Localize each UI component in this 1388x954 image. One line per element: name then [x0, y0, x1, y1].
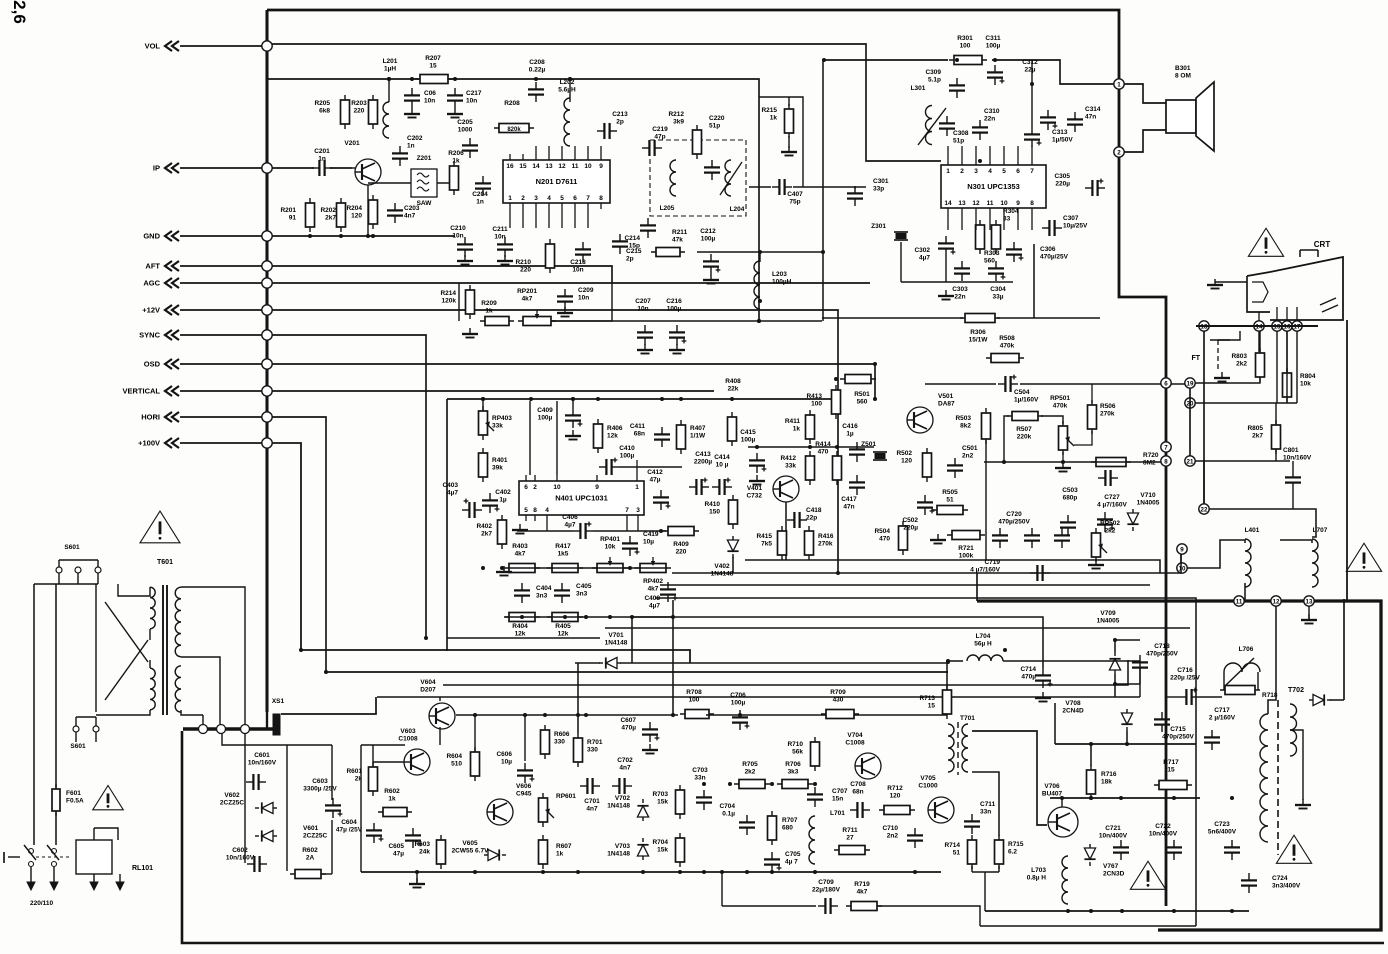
node 8	[1161, 456, 1171, 466]
svg-text:3n3: 3n3	[576, 591, 588, 598]
svg-text:C214: C214	[624, 235, 640, 242]
capacitor C711	[964, 801, 996, 834]
resistor R412	[780, 451, 814, 485]
svg-text:51: 51	[953, 850, 961, 857]
svg-text:C412: C412	[647, 469, 663, 476]
capacitor C308	[939, 116, 969, 145]
switch S601 bottom	[70, 717, 99, 750]
capacitor C724	[1241, 873, 1301, 893]
svg-text:22n: 22n	[984, 116, 995, 123]
capacitor C718	[1132, 643, 1179, 675]
svg-text:4k7: 4k7	[522, 296, 533, 303]
svg-text:8M2: 8M2	[1143, 460, 1156, 467]
svg-text:12: 12	[972, 200, 980, 207]
svg-text:V710: V710	[1140, 492, 1156, 499]
resistor R607	[539, 835, 572, 869]
wire AGC	[180, 282, 262, 284]
svg-text:R719: R719	[854, 881, 870, 888]
resistor R205	[314, 95, 349, 129]
svg-text:N301 UPC1353: N301 UPC1353	[967, 182, 1020, 191]
svg-text:4µ7: 4µ7	[565, 522, 576, 529]
svg-text:C721: C721	[1105, 825, 1121, 832]
wire c301 stub	[854, 187, 856, 189]
input AFT label	[145, 262, 160, 271]
wire bus y585	[660, 584, 1150, 586]
svg-text:1N4148: 1N4148	[607, 851, 630, 858]
svg-text:R506: R506	[1100, 403, 1116, 410]
wire xs1 out right	[281, 697, 376, 714]
svg-text:14: 14	[944, 200, 952, 207]
svg-text:+100V: +100V	[138, 439, 160, 448]
resistor R413	[806, 385, 840, 419]
potentiometer RP402	[635, 557, 671, 593]
svg-text:51p: 51p	[709, 123, 720, 130]
svg-text:22k: 22k	[728, 386, 739, 393]
svg-text:RP403: RP403	[492, 415, 512, 422]
svg-text:R408: R408	[725, 378, 741, 385]
svg-text:B301: B301	[1175, 65, 1191, 72]
resistor R415	[756, 526, 786, 560]
svg-text:V705: V705	[920, 775, 936, 782]
svg-text:2n2: 2n2	[962, 453, 974, 460]
svg-text:V501: V501	[938, 393, 954, 400]
svg-text:1k: 1k	[452, 158, 460, 165]
svg-text:4µ7: 4µ7	[649, 603, 660, 610]
node VERTICAL junction	[262, 386, 272, 396]
wire 700 rail y714	[456, 713, 947, 717]
svg-text:16: 16	[506, 163, 514, 170]
svg-text:1N4148: 1N4148	[605, 640, 628, 647]
resistor R405	[547, 613, 583, 638]
gnd c607	[642, 744, 658, 754]
svg-text:15p: 15p	[629, 243, 640, 250]
wire saw out	[437, 182, 454, 184]
wire v709 box	[1113, 638, 1140, 686]
wire crt gnd	[1215, 281, 1247, 283]
resistor R705	[734, 761, 770, 789]
svg-text:5n6/400V: 5n6/400V	[1208, 829, 1237, 836]
svg-text:C207: C207	[635, 298, 651, 305]
wire N401 bottom bus	[447, 637, 600, 639]
svg-text:RP201: RP201	[517, 288, 537, 295]
svg-text:220µ /25V: 220µ /25V	[1170, 675, 1200, 682]
diode V767	[1084, 844, 1124, 878]
svg-text:R207: R207	[425, 55, 441, 62]
transformer T702 core	[1277, 700, 1279, 855]
svg-text:1n: 1n	[476, 199, 484, 206]
svg-text:RP501: RP501	[1050, 395, 1070, 402]
capacitor C413	[689, 451, 712, 495]
resistor R504	[874, 521, 907, 555]
svg-text:AGC: AGC	[143, 279, 160, 288]
capacitor C703	[692, 767, 712, 810]
wire v705 emitters	[972, 866, 999, 911]
resistor R408	[725, 378, 741, 446]
capacitor C217	[447, 88, 482, 108]
svg-text:4µ7: 4µ7	[919, 255, 930, 262]
capacitor C304	[988, 261, 1006, 301]
capacitor C708	[850, 781, 870, 818]
resistor R715	[995, 835, 1024, 869]
svg-text:C503: C503	[1062, 487, 1078, 494]
capacitor C407	[772, 179, 803, 206]
IC N201	[503, 154, 610, 209]
capacitor C701	[580, 778, 600, 813]
fuse F601	[52, 784, 84, 816]
resistor R506	[1074, 384, 1116, 445]
svg-text:15/1W: 15/1W	[969, 337, 989, 344]
svg-text:RP402: RP402	[643, 578, 663, 585]
svg-text:22p: 22p	[806, 515, 817, 522]
input VERTICAL arrow	[165, 386, 179, 396]
svg-text:220/110: 220/110	[30, 900, 54, 907]
wire OSD rail	[272, 364, 875, 399]
wire bus y598	[655, 598, 1196, 926]
wire mains left	[34, 583, 98, 585]
wire bridge top	[222, 734, 332, 745]
wire l202 top	[568, 77, 572, 102]
svg-text:470: 470	[818, 449, 829, 456]
resistor R410	[704, 495, 737, 529]
wire +100V	[180, 442, 262, 444]
svg-text:C204: C204	[472, 191, 488, 198]
capacitor C723	[1208, 821, 1240, 860]
wire c504 rail	[925, 383, 1185, 385]
wire node22 branch	[1209, 509, 1316, 537]
svg-text:R715: R715	[1008, 841, 1024, 848]
svg-text:C312: C312	[1022, 59, 1038, 66]
gnd r215	[781, 146, 797, 156]
capacitor C403	[442, 482, 482, 518]
gnd r403	[496, 566, 512, 576]
wire N301 pin stubs down	[948, 214, 1032, 230]
svg-text:10n: 10n	[424, 98, 435, 105]
resistor R404	[504, 613, 540, 638]
svg-text:2 µ/160V: 2 µ/160V	[1209, 715, 1236, 722]
node 17	[1292, 321, 1302, 331]
inductor L707	[1312, 527, 1328, 587]
gnd t702	[1295, 799, 1311, 809]
resistor R304	[992, 208, 1019, 254]
svg-text:11: 11	[987, 200, 994, 207]
transistor V704	[845, 732, 881, 779]
svg-text:R403: R403	[512, 543, 528, 550]
svg-text:1N4148: 1N4148	[711, 571, 734, 578]
svg-text:C314: C314	[1085, 106, 1101, 113]
wire left main bus	[265, 10, 268, 712]
junction l704	[946, 660, 950, 690]
svg-text:C707: C707	[832, 788, 848, 795]
svg-text:T701: T701	[960, 715, 975, 722]
resistor R710	[787, 737, 819, 771]
IC N301	[941, 159, 1046, 214]
svg-text:R713: R713	[919, 695, 935, 702]
wire supply rail y79	[267, 78, 419, 80]
wire +100V rail	[272, 443, 690, 663]
svg-text:4µ 7: 4µ 7	[785, 859, 798, 866]
switch mains contacts	[4, 845, 72, 867]
svg-text:680: 680	[782, 825, 793, 832]
resistor R711	[834, 827, 870, 855]
svg-text:V703: V703	[615, 843, 631, 850]
svg-text:56k: 56k	[792, 749, 803, 756]
capacitor C415	[740, 429, 766, 485]
resistor R709	[821, 689, 859, 719]
wire node21 line	[1195, 460, 1290, 462]
svg-text:C403: C403	[442, 482, 458, 489]
svg-text:1N4148: 1N4148	[607, 803, 630, 810]
wire t601 frame	[96, 584, 245, 715]
resistor R717	[1154, 759, 1192, 790]
capacitor C405	[554, 583, 592, 603]
svg-text:T702: T702	[1288, 687, 1304, 694]
wire c409 col	[571, 397, 575, 408]
svg-text:10k: 10k	[605, 544, 616, 551]
capacitor C702	[612, 757, 633, 794]
svg-text:C212: C212	[700, 228, 716, 235]
svg-text:5: 5	[524, 507, 528, 514]
svg-text:220: 220	[676, 549, 687, 556]
resistor R718	[1220, 672, 1278, 699]
diode V602	[220, 792, 277, 814]
svg-text:V603: V603	[400, 728, 416, 735]
capacitor C211	[492, 226, 513, 265]
wire audio rail2	[992, 60, 1114, 84]
input OSD arrow	[165, 359, 179, 369]
wire node19 col	[1189, 388, 1191, 456]
svg-text:R409: R409	[673, 541, 689, 548]
svg-text:V606: V606	[516, 783, 532, 790]
input OSD label	[144, 360, 161, 369]
svg-text:100: 100	[960, 43, 971, 50]
gnd rp201	[462, 328, 478, 338]
wire aft drop	[551, 283, 612, 321]
svg-text:1k: 1k	[388, 796, 396, 803]
svg-text:9: 9	[595, 484, 599, 491]
svg-text:12k: 12k	[515, 631, 526, 638]
svg-text:33µ: 33µ	[993, 294, 1004, 301]
node +100V junction	[262, 438, 272, 448]
switch S601 top	[56, 544, 101, 584]
warning triangle T601	[140, 511, 180, 543]
svg-text:C605: C605	[388, 843, 404, 850]
resistor R207	[415, 55, 453, 84]
svg-text:0.8µ H: 0.8µ H	[1027, 875, 1047, 882]
wire rp403 col	[481, 397, 485, 410]
svg-text:120: 120	[351, 213, 362, 220]
capacitor C707	[807, 787, 848, 807]
input VOL label	[145, 42, 161, 51]
svg-text:C402: C402	[495, 489, 511, 496]
svg-text:C504: C504	[1014, 389, 1030, 396]
wire l704 right	[1003, 661, 1140, 697]
wire r215 stub	[759, 97, 803, 187]
svg-text:C945: C945	[516, 791, 532, 798]
svg-text:C302: C302	[914, 247, 930, 254]
svg-text:C416: C416	[842, 423, 858, 430]
svg-text:75p: 75p	[789, 199, 800, 206]
svg-text:RL101: RL101	[132, 865, 153, 872]
svg-text:R703: R703	[652, 791, 668, 798]
capacitor C722	[1149, 823, 1182, 860]
svg-text:C219: C219	[652, 126, 668, 133]
svg-text:10k: 10k	[1300, 381, 1311, 388]
svg-text:L301: L301	[911, 85, 926, 92]
svg-text:R203: R203	[351, 100, 367, 107]
svg-text:9: 9	[1180, 546, 1184, 553]
capacitor C410	[599, 445, 682, 475]
wire mains left col	[33, 584, 35, 845]
svg-text:11: 11	[1236, 598, 1243, 605]
svg-text:6k8: 6k8	[319, 108, 330, 115]
svg-text:C706: C706	[730, 692, 746, 699]
speaker B301	[1166, 65, 1214, 151]
capacitor C208	[528, 59, 545, 102]
svg-text:1N4005: 1N4005	[1097, 618, 1120, 625]
svg-text:C209: C209	[578, 287, 594, 294]
input AGC label	[143, 279, 160, 288]
svg-text:C606: C606	[496, 751, 512, 758]
node 7	[1161, 442, 1171, 452]
svg-text:100µ: 100µ	[701, 236, 716, 243]
wire r720 line	[984, 460, 1161, 464]
svg-text:R405: R405	[555, 623, 571, 630]
svg-text:10 µ: 10 µ	[716, 462, 729, 469]
svg-text:10n: 10n	[637, 306, 648, 313]
capacitor C307	[1042, 215, 1088, 236]
capacitor C721	[1099, 825, 1129, 860]
svg-text:C303: C303	[952, 286, 968, 293]
capacitor C220	[704, 115, 725, 180]
resistor R714	[944, 835, 976, 869]
node IP junction	[262, 163, 272, 173]
svg-text:10n: 10n	[578, 295, 589, 302]
svg-text:C308: C308	[953, 130, 969, 137]
svg-text:C405: C405	[576, 583, 592, 590]
wire hv line	[1343, 601, 1345, 700]
svg-text:220µ: 220µ	[1055, 181, 1070, 188]
svg-text:SYNC: SYNC	[139, 331, 160, 340]
capacitor C719	[970, 559, 1050, 581]
svg-text:R211: R211	[672, 229, 688, 236]
svg-text:2: 2	[960, 168, 964, 175]
potentiometer RP502	[1092, 520, 1121, 562]
svg-text:6: 6	[524, 484, 528, 491]
svg-text:4: 4	[547, 195, 551, 202]
svg-text:C719: C719	[984, 559, 1000, 566]
svg-text:C709: C709	[818, 879, 834, 886]
svg-text:1n: 1n	[318, 156, 326, 163]
capacitor C205	[457, 119, 478, 158]
svg-text:4k7: 4k7	[648, 586, 659, 593]
gnd crt	[1207, 279, 1223, 289]
svg-text:470k: 470k	[1053, 403, 1068, 410]
svg-text:68n: 68n	[852, 789, 863, 796]
capacitor C204	[472, 176, 491, 206]
svg-text:R410: R410	[704, 501, 720, 508]
svg-text:10n: 10n	[572, 267, 583, 274]
resistor R411	[785, 410, 815, 444]
svg-text:S601: S601	[70, 743, 86, 750]
svg-text:C718: C718	[1154, 643, 1170, 650]
svg-text:13: 13	[1306, 598, 1313, 605]
svg-text:10n/400V: 10n/400V	[1149, 831, 1178, 838]
wire bottom step	[980, 925, 1196, 927]
diode V402	[711, 536, 739, 578]
connector XS1	[183, 698, 285, 735]
CRT tube	[1247, 250, 1343, 320]
svg-text:R805: R805	[1247, 425, 1263, 432]
svg-text:47µ /25V: 47µ /25V	[336, 827, 363, 834]
wire l401 bot	[1244, 583, 1246, 601]
svg-text:2: 2	[1117, 149, 1121, 156]
svg-text:RP601: RP601	[556, 793, 576, 800]
capacitor C714	[1020, 666, 1052, 702]
input GND arrow	[165, 231, 179, 241]
wire l203 top rail	[697, 250, 825, 262]
capacitor C305	[1054, 173, 1105, 196]
svg-text:1µ: 1µ	[846, 431, 854, 438]
svg-text:820k: 820k	[507, 127, 521, 133]
svg-text:C414: C414	[714, 454, 730, 461]
zener V605	[452, 840, 506, 861]
capacitor C720c	[1054, 528, 1070, 548]
wire r602 out	[321, 873, 332, 875]
svg-text:4: 4	[545, 507, 549, 514]
svg-text:1n: 1n	[407, 143, 415, 150]
capacitor C207	[635, 298, 653, 354]
svg-text:R602: R602	[302, 847, 318, 854]
wire hv rail y744	[1055, 703, 1196, 746]
wire AFT	[180, 265, 262, 267]
svg-text:R803: R803	[1231, 353, 1247, 360]
capacitor C727	[1097, 494, 1128, 532]
wire t701 v706 base	[972, 731, 1047, 825]
wire line out rail	[985, 909, 1249, 913]
resistor R414	[815, 441, 841, 485]
svg-text:V605: V605	[462, 840, 478, 847]
input AGC arrow	[165, 278, 179, 288]
resistor R803	[1231, 348, 1264, 382]
CRT label	[1314, 240, 1331, 249]
svg-text:2CW55 6.7V: 2CW55 6.7V	[452, 848, 490, 855]
svg-text:+12V: +12V	[142, 306, 160, 315]
resistor R203	[351, 95, 377, 129]
node 9	[1177, 544, 1187, 554]
wire supply rail y79b	[449, 79, 759, 321]
wire c716 link	[1166, 696, 1222, 698]
svg-text:C502: C502	[902, 517, 918, 524]
resonator Z501	[861, 441, 887, 460]
wire l707 top	[1280, 540, 1312, 543]
svg-text:1k: 1k	[556, 851, 564, 858]
svg-text:13: 13	[545, 163, 553, 170]
warning triangle CRT	[1248, 228, 1283, 256]
svg-text:V767: V767	[1103, 863, 1119, 870]
wire r804 col	[1286, 331, 1288, 372]
svg-text:1k5: 1k5	[558, 551, 569, 558]
capacitor C607	[620, 717, 659, 742]
svg-text:10n: 10n	[452, 233, 463, 240]
svg-text:C602: C602	[232, 847, 248, 854]
input AFT arrow	[165, 261, 179, 271]
resistor R719	[846, 881, 882, 911]
svg-text:1/1W: 1/1W	[690, 433, 706, 440]
svg-text:8: 8	[533, 507, 537, 514]
svg-text:D207: D207	[420, 687, 436, 694]
svg-text:330: 330	[587, 747, 598, 754]
svg-text:10µ: 10µ	[501, 759, 512, 766]
